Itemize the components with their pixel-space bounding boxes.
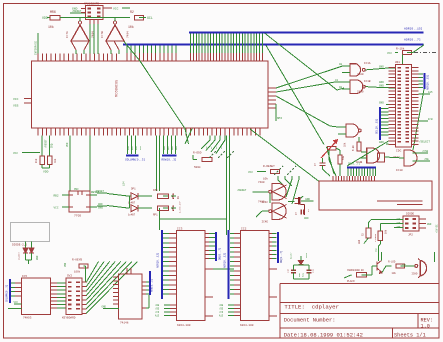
- bus COLUMN[0..3] stub: [126, 154, 139, 156]
- IC5 left pins from bus: [11, 282, 15, 284]
- IDC right pins: [412, 67, 419, 69]
- svg-text:K90R2404B R2: K90R2404B R2: [347, 269, 364, 272]
- svg-text:VDD: VDD: [42, 16, 48, 20]
- wire bus diagonal into pot: [326, 147, 327, 148]
- IDC internal pads: [398, 67, 402, 69]
- svg-text:KEYBOARD: KEYBOARD: [62, 317, 76, 320]
- svg-text:R10: R10: [35, 158, 38, 163]
- and gate with box near display: [367, 148, 380, 163]
- wire from MCU right pin down: [275, 104, 277, 121]
- bus ADR vertical right of connector: [423, 73, 425, 89]
- svg-text:/OE: /OE: [424, 157, 429, 161]
- wire joining caps: [294, 264, 309, 266]
- IC6 GND pin: [103, 308, 119, 310]
- svg-text:ICHO: ICHO: [411, 273, 418, 276]
- MCU bottom pins: [37, 128, 39, 136]
- long diagonal wire bus to gate IC1: [265, 33, 337, 90]
- svg-text:R-OSO: R-OSO: [193, 152, 202, 155]
- svg-text:100k: 100k: [74, 270, 81, 274]
- resistor R11 pullup: [49, 136, 51, 157]
- svg-text:GND: GND: [36, 255, 39, 260]
- IC6 right pins: [142, 281, 147, 283]
- svg-text:10k: 10k: [128, 25, 134, 29]
- wire bus bar to IC10: [413, 89, 424, 150]
- svg-text:10k: 10k: [48, 25, 54, 29]
- svg-text:ADR[0..12]: ADR[0..12]: [156, 252, 160, 268]
- potentiometer R5: [327, 147, 336, 151]
- dash-dot wire right of R-10k: [414, 52, 436, 54]
- svg-text:VSS: VSS: [13, 105, 19, 108]
- svg-text:C-KEYB: C-KEYB: [374, 233, 377, 242]
- resistor R2 10k: [115, 17, 130, 19]
- svg-text:VCC: VCC: [13, 98, 19, 101]
- svg-text:NMI: NMI: [277, 117, 282, 120]
- svg-text:GND: GND: [304, 217, 309, 220]
- wire RESET to MAX232: [70, 12, 85, 14]
- priority encoder IC6 74148: [119, 274, 143, 319]
- resistor RP1: [158, 206, 169, 211]
- svg-text:VCC: VCC: [14, 301, 19, 304]
- svg-text:LED: LED: [358, 239, 361, 244]
- bus ADR[0..12] vertical for RAM IC2: [161, 230, 163, 299]
- IC5 right pins: [51, 282, 57, 284]
- svg-text:7404: 7404: [92, 31, 95, 38]
- wire horizontal joining memory drops: [160, 218, 227, 220]
- wire R-10k to bus end: [407, 52, 413, 54]
- resistor R13 vertical LED: [366, 228, 371, 238]
- svg-text:COLUMN[0..3]: COLUMN[0..3]: [6, 285, 9, 302]
- svg-text:7400: 7400: [258, 181, 265, 184]
- diode 1n4007 second: [131, 205, 138, 212]
- svg-text:/SELECT: /SELECT: [419, 140, 430, 144]
- capacitor C12: [321, 158, 323, 163]
- svg-text:+5V-DC: +5V-DC: [436, 224, 439, 233]
- MCU top pins aligned with lower bus ribs: [126, 53, 128, 61]
- ribs bus to connector right: [419, 73, 424, 75]
- IC reset supervisor 7705: [69, 191, 90, 212]
- wire IC4C to IC4D link: [269, 193, 271, 203]
- IC2 lower left pins: [170, 304, 177, 306]
- svg-text:/RESET: /RESET: [237, 188, 247, 192]
- transistor wiring: [362, 274, 372, 276]
- vertical joint at diode inputs: [129, 196, 131, 208]
- bus DB[0..7] vertical right of IC3: [277, 232, 279, 263]
- svg-text:OSC: OSC: [74, 188, 79, 191]
- speaker LS1: [415, 264, 418, 267]
- wires connector right to labels: [419, 93, 431, 95]
- wires MCU to oscillator divider: [209, 136, 211, 141]
- IC4D input wedge: [273, 205, 287, 212]
- svg-text:ADR[0..15]: ADR[0..15]: [404, 27, 423, 31]
- svg-text:MR6: MR6: [50, 10, 56, 14]
- capacitor C5: [163, 195, 169, 197]
- wire T7 down to GND: [301, 204, 305, 206]
- svg-text:VDD: VDD: [64, 262, 67, 267]
- svg-text:7400: 7400: [357, 91, 364, 94]
- wire INTERFACE left: [37, 33, 39, 54]
- MAX232 left pins: [81, 8, 86, 10]
- svg-text:C2: C2: [335, 79, 339, 82]
- wire connector to display bus: [347, 141, 389, 166]
- svg-text:/CS0: /CS0: [422, 149, 429, 153]
- svg-text:74148: 74148: [120, 322, 129, 325]
- MAX232 right pin VCC: [103, 7, 112, 9]
- svg-text:VCC: VCC: [387, 52, 392, 55]
- diode D5: [25, 242, 27, 248]
- annotation frame box: [11, 223, 50, 242]
- IC2 left pins and bus ribs: [163, 233, 169, 235]
- nand gate IC1B 7400: [350, 80, 363, 94]
- capacitor C6: [163, 207, 169, 209]
- svg-text:IDC: IDC: [396, 150, 402, 153]
- svg-text:IC7A: IC7A: [66, 31, 69, 38]
- MCU left pins: [24, 98, 32, 100]
- inverter IC7A 7404: [71, 25, 89, 41]
- svg-text:DB[0..7]: DB[0..7]: [348, 163, 360, 166]
- IC3 lower left pins: [234, 304, 241, 306]
- svg-text:6,8/6.3MF: 6,8/6.3MF: [179, 200, 182, 213]
- IDC left pins: [389, 67, 396, 69]
- svg-text:TITLE: cdplayer: TITLE: cdplayer: [284, 304, 339, 311]
- svg-text:SV2: SV2: [67, 275, 72, 278]
- svg-text:R/W: R/W: [428, 118, 433, 121]
- dashed continuation marks right of R-RESET: [274, 166, 283, 175]
- svg-text:GND: GND: [72, 8, 78, 11]
- svg-text:R2: R2: [130, 10, 134, 14]
- IC2 right data pins: [205, 233, 209, 235]
- svg-text:IC4E: IC4E: [262, 221, 269, 224]
- MAX232 bottom pins with wires to MCU: [89, 20, 91, 25]
- svg-text:7404: 7404: [127, 31, 130, 38]
- MCU top pins dense under upper bus: [190, 53, 192, 61]
- wires MCU down to memory address bus: [159, 136, 161, 192]
- svg-text:GND: GND: [102, 306, 107, 309]
- bus SEL vertical left of connector: [379, 107, 381, 140]
- resistor R16 vertical: [338, 155, 342, 164]
- svg-text:7400: 7400: [357, 73, 364, 76]
- svg-text:DIODE: DIODE: [406, 213, 414, 216]
- svg-text:XCL: XCL: [147, 16, 153, 20]
- svg-text:Date:18.08.1999 01:52:42: Date:18.08.1999 01:52:42: [284, 331, 363, 338]
- svg-text:GND: GND: [379, 102, 384, 105]
- svg-text:10k: 10k: [385, 229, 388, 234]
- resistor M-80: [357, 142, 361, 151]
- svg-text:/RESET: /RESET: [95, 190, 105, 193]
- svg-text:N2D: N2D: [402, 263, 407, 266]
- svg-text:COLUMN[0..3]: COLUMN[0..3]: [125, 158, 145, 162]
- svg-text:IC10: IC10: [396, 169, 403, 172]
- diode D6: [31, 242, 33, 248]
- IC10 output wires: [413, 152, 429, 154]
- display top pins: [332, 176, 334, 181]
- nand gate IC1A 7400: [350, 64, 361, 76]
- svg-text:VDD: VDD: [43, 171, 49, 174]
- svg-text:A9: A9: [339, 63, 343, 66]
- diagonal wire N-joint below MCU: [185, 129, 189, 144]
- resistor 1Mb: [158, 194, 169, 199]
- svg-text:PLACO: PLACO: [347, 280, 355, 283]
- svg-text:VCC: VCC: [113, 8, 119, 11]
- svg-text:VCC: VCC: [54, 207, 59, 210]
- capacitor C10 at T7: [300, 209, 302, 214]
- svg-text:DP1: DP1: [131, 188, 136, 191]
- svg-text:BA157: BA157: [290, 252, 293, 259]
- inverter IC7B 7404: [106, 25, 124, 41]
- LCD display lines: [377, 200, 423, 202]
- resistor R14 vertical C-KEYB: [378, 231, 383, 241]
- wires down into gates: [277, 176, 279, 180]
- bus ribs from upper bus to MCU top pins: [190, 33, 192, 53]
- svg-text:A13: A13: [219, 315, 224, 318]
- diagonal wire MCU to display: [250, 129, 319, 181]
- svg-text:Document Number:: Document Number:: [284, 317, 336, 323]
- capacitor C11: [306, 269, 311, 271]
- svg-text:51E: 51E: [342, 155, 345, 160]
- IC5 VCC pin: [14, 303, 21, 305]
- svg-text:ADR[0..15]: ADR[0..15]: [426, 74, 430, 90]
- svg-text:10k: 10k: [263, 177, 268, 181]
- svg-text:IC1A: IC1A: [364, 62, 371, 65]
- svg-text:A13: A13: [155, 315, 160, 318]
- bus ADR[0..12] vertical for ROM IC3: [228, 230, 230, 299]
- bus ADR[0..15] horizontal lower: [123, 43, 424, 45]
- diode D10 BA157: [298, 261, 303, 265]
- wire VCC stub left: [22, 152, 40, 154]
- MCU top pins sparse left: [37, 54, 39, 62]
- svg-text:10k: 10k: [344, 142, 347, 147]
- svg-text:ROW[0..3]: ROW[0..3]: [151, 279, 154, 292]
- svg-text:MC68HC05: MC68HC05: [116, 80, 120, 97]
- wires MCU right pins to gates: [276, 66, 342, 88]
- transistor T7 thick bar: [288, 201, 295, 203]
- IC2 right misc pins: [205, 268, 213, 270]
- svg-text:RB2: RB2: [54, 195, 59, 198]
- svg-text:VDD: VDD: [66, 142, 69, 147]
- svg-text:A15: A15: [428, 91, 433, 94]
- inverter IC7A wires: [79, 18, 81, 22]
- svg-text:A9: A9: [339, 86, 343, 89]
- svg-text:ADR[0..7]: ADR[0..7]: [404, 38, 421, 42]
- svg-text:GND: GND: [375, 247, 378, 252]
- svg-text:6264-100: 6264-100: [177, 324, 191, 327]
- SV2 right pins: [82, 281, 87, 283]
- svg-text:1n4B7: 1n4B7: [128, 214, 136, 217]
- display bus ribs: [347, 168, 349, 176]
- wire reset out: [97, 192, 107, 194]
- svg-text:U$1: U$1: [395, 60, 400, 64]
- transistor T6: [376, 262, 378, 271]
- svg-text:7705: 7705: [74, 215, 81, 218]
- bus ribs from lower bus down to MCU: [126, 45, 128, 53]
- inverter IC7B wires: [114, 18, 116, 22]
- MCU right pins: [268, 87, 276, 89]
- svg-text:M-80: M-80: [352, 145, 355, 151]
- svg-text:100n: 100n: [305, 252, 308, 258]
- svg-text:7400: 7400: [258, 201, 265, 204]
- IC3 left pins and bus ribs: [230, 233, 234, 235]
- svg-text:C11: C11: [312, 268, 315, 273]
- wire gnd row: [97, 205, 107, 207]
- svg-text:R-RESET: R-RESET: [263, 165, 275, 168]
- ribs bus to connector left: [381, 107, 389, 109]
- svg-text:1Mb: 1Mb: [153, 188, 158, 192]
- JP2 third wire stub: [394, 227, 404, 229]
- bus ROW[0..3] stub: [162, 154, 177, 156]
- svg-text:VCC: VCC: [13, 152, 18, 155]
- svg-text:Sheets 1/1: Sheets 1/1: [394, 332, 426, 338]
- svg-text:C10: C10: [287, 268, 290, 273]
- svg-text:10k: 10k: [392, 272, 397, 275]
- svg-text:ADR[0..12]: ADR[0..12]: [223, 252, 227, 268]
- bus DB[0..7] vertical right of IC2: [215, 232, 217, 261]
- svg-text:R-LOD: R-LOD: [388, 260, 396, 263]
- nand gate IC4A 7400: [346, 124, 359, 137]
- svg-text:VCC: VCC: [248, 171, 253, 174]
- wire joining diodes: [26, 259, 32, 261]
- capacitor C10: [291, 269, 296, 271]
- nand IC1B output wire: [365, 86, 381, 89]
- bus COLUMN[0..3] vertical: [9, 279, 11, 303]
- dashed continuation marks after R-OSO: [209, 151, 216, 158]
- long diagonal wire bus to pot R5: [266, 45, 324, 144]
- long diagonal wire T2 base to MCU interior: [124, 42, 140, 62]
- svg-text:RCW: RCW: [301, 272, 304, 277]
- wire GND vertical to transistor: [378, 246, 380, 261]
- bus DB[0..7] horizontal upper: [189, 31, 424, 33]
- svg-text:6264-100: 6264-100: [240, 324, 254, 327]
- svg-text:1N4007: 1N4007: [18, 251, 21, 260]
- svg-text:GND: GND: [379, 81, 384, 84]
- wires MCU to ROW bus: [163, 136, 165, 155]
- rev box: [417, 314, 419, 329]
- IC MC68HC05 MCU body: [32, 61, 269, 128]
- svg-text:INTERFACE: INTERFACE: [35, 41, 38, 55]
- wires pot to display vee: [327, 150, 334, 174]
- svg-text:IC1B: IC1B: [364, 80, 371, 83]
- IC6 top pins: [126, 268, 128, 274]
- svg-text:10k: 10k: [54, 158, 57, 163]
- svg-text:GND: GND: [427, 223, 432, 226]
- IC3 right misc pins: [269, 268, 277, 270]
- svg-text:IRQ: IRQ: [51, 143, 54, 148]
- IC4C input wedge: [273, 185, 287, 192]
- wires MCU to COLUMN bus: [127, 136, 129, 155]
- JP2 right pins: [419, 218, 426, 220]
- svg-text:500k: 500k: [194, 165, 201, 169]
- svg-text:DB[0..7]: DB[0..7]: [279, 250, 283, 263]
- wires MCU down to reset logic: [69, 136, 71, 191]
- svg-text:RP1: RP1: [153, 214, 158, 217]
- svg-text:GND: GND: [379, 66, 384, 69]
- IC6 left pins: [113, 276, 119, 278]
- svg-text:/RESET: /RESET: [45, 139, 48, 148]
- svg-text:R-KEYB: R-KEYB: [72, 259, 82, 262]
- LCD display module body: [319, 181, 432, 210]
- svg-text:74H93: 74H93: [23, 317, 32, 320]
- svg-text:IC7B: IC7B: [101, 31, 104, 38]
- svg-text:LS4: LS4: [123, 181, 126, 186]
- resistor R10 pullup: [41, 136, 43, 157]
- svg-text:GND: GND: [98, 203, 103, 206]
- nand IC1A output wire: [365, 68, 388, 70]
- svg-text:1.0: 1.0: [421, 323, 430, 329]
- steep wire fan from SV2 pins up to key matrix: [86, 262, 98, 283]
- svg-text:ROW[0..3]: ROW[0..3]: [162, 158, 177, 162]
- IC3 right data pins: [269, 233, 272, 235]
- bus ROW[0..3] vertical: [149, 271, 151, 295]
- svg-text:DB[0..7]: DB[0..7]: [218, 247, 222, 260]
- svg-text:SEL[0..15]: SEL[0..15]: [375, 118, 379, 134]
- svg-text:GND: GND: [98, 207, 103, 210]
- wire joining pullups to VDD: [41, 165, 43, 169]
- title block frame: [280, 283, 439, 285]
- svg-text:JP2: JP2: [408, 234, 413, 237]
